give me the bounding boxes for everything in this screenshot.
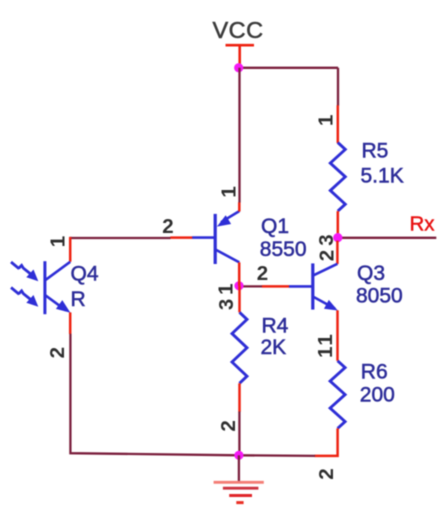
- pin 2 of R4 (red): [238, 383, 241, 412]
- junction node ground rail: [234, 451, 243, 460]
- Q1 bar: [214, 214, 217, 264]
- svg-text:R: R: [71, 288, 86, 311]
- svg-text:R5: R5: [362, 140, 389, 163]
- power symbol VCC (red bar): [226, 45, 255, 67]
- wire R4 to ground rail: [238, 412, 240, 456]
- resistor R5: [330, 143, 345, 212]
- ground stem: [238, 455, 240, 481]
- svg-text:5.1K: 5.1K: [361, 165, 404, 188]
- pin 1 of Q1 emitter (red): [238, 202, 241, 211]
- svg-text:200: 200: [360, 384, 395, 407]
- pin 1 of R4 (red): [238, 286, 241, 313]
- pin 2 of R6 (red, down and left corner): [315, 428, 338, 456]
- wire VCC horizontal top: [239, 67, 339, 69]
- svg-text:VCC: VCC: [212, 17, 263, 43]
- pin 2 of R5 (red): [337, 211, 340, 241]
- pin 3 of Q3 collector (red): [336, 241, 339, 264]
- pin 1 of Q4 collector (red): [69, 237, 72, 262]
- svg-text:1: 1: [314, 334, 337, 345]
- Q4 collector diagonal: [45, 262, 70, 280]
- Q3 emitter diagonal with arrow: [313, 297, 335, 309]
- svg-text:R4: R4: [262, 314, 289, 337]
- svg-text:1: 1: [314, 346, 337, 357]
- ground bar 4: [236, 501, 243, 504]
- light arrow 2: [11, 288, 30, 300]
- svg-text:2: 2: [46, 347, 69, 358]
- Q3 base line (blue): [289, 285, 313, 288]
- svg-text:8550: 8550: [260, 238, 307, 261]
- resistor R4: [232, 312, 247, 383]
- svg-text:2K: 2K: [261, 336, 287, 359]
- pin 1 of R5 (red): [337, 105, 340, 143]
- svg-text:R6: R6: [361, 360, 388, 383]
- wire from Q1 collector node to Q3 base: [240, 285, 262, 287]
- Q1 emitter diagonal with arrow toward bar: [221, 211, 239, 222]
- ground bar 2: [223, 487, 259, 490]
- pin 2 of Q3 base (red): [262, 285, 289, 288]
- svg-text:Q4: Q4: [71, 263, 99, 286]
- transistor Q1 (PNP 8550): [192, 211, 239, 264]
- phototransistor Q4: [11, 261, 70, 314]
- Q4 emitter diagonal with arrow: [45, 295, 66, 310]
- pin 2 of Q1 base (red): [170, 236, 192, 239]
- junction node Q1 collector / R4 / Q3 base: [234, 281, 243, 290]
- light arrow 1: [11, 262, 30, 274]
- svg-text:3: 3: [215, 299, 238, 310]
- Q1 collector diagonal: [215, 250, 239, 263]
- wire Rx: [338, 237, 437, 239]
- Q4 bar: [43, 261, 46, 314]
- ground bar 3: [229, 494, 252, 497]
- wire ground rail right segment: [239, 454, 315, 457]
- junction node VCC: [234, 63, 243, 72]
- svg-text:2: 2: [316, 250, 339, 261]
- Q1 base line (blue): [192, 236, 215, 239]
- svg-text:1: 1: [315, 115, 338, 126]
- wire Q4 collector to Q1 base: [70, 237, 170, 239]
- svg-text:1: 1: [215, 283, 238, 294]
- svg-text:Q3: Q3: [357, 262, 385, 285]
- ground bar 1: [214, 481, 264, 484]
- wire down to R5: [337, 68, 339, 106]
- svg-text:2: 2: [257, 262, 268, 285]
- resistor R6: [330, 361, 345, 429]
- wire Q4 emitter down to ground rail: [70, 334, 239, 456]
- ground symbol: [214, 455, 264, 502]
- svg-text:Q1: Q1: [261, 215, 289, 238]
- pin 2 of Q4 emitter (red): [69, 312, 72, 334]
- svg-text:2: 2: [162, 215, 173, 238]
- wire VCC down to Q1 emitter: [238, 68, 240, 203]
- junction node Rx: [333, 233, 342, 242]
- Q3 bar: [311, 263, 314, 309]
- pin 3 of Q1 collector (red): [238, 262, 241, 285]
- pin 1 of Q3 emitter (red): [336, 310, 339, 361]
- wire corner at Q4 top: [69, 237, 71, 239]
- svg-text:8050: 8050: [356, 284, 403, 307]
- transistor Q3 (NPN 8050): [289, 263, 338, 310]
- svg-text:1: 1: [47, 236, 70, 247]
- svg-text:3: 3: [315, 234, 338, 245]
- svg-text:2: 2: [217, 420, 240, 431]
- Q3 collector diagonal: [313, 264, 337, 276]
- svg-text:1: 1: [218, 186, 241, 197]
- svg-text:2: 2: [315, 468, 338, 479]
- svg-text:Rx: Rx: [410, 213, 436, 236]
